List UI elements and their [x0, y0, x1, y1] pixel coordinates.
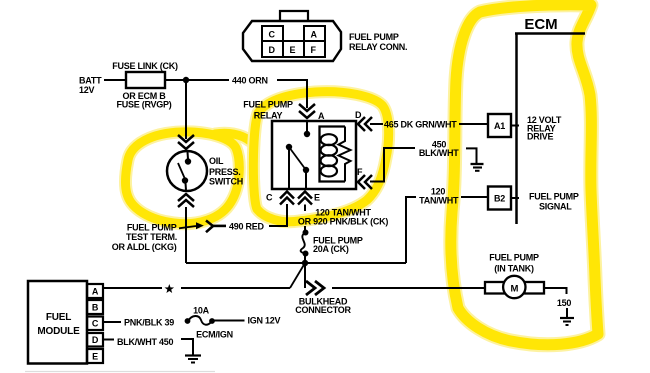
connector arrows at relay D: [358, 117, 372, 131]
wire 465 to A1: [459, 123, 488, 125]
test terminal symbol: [206, 221, 226, 233]
connector arrows above oil switch: [178, 135, 194, 149]
svg-text:A: A: [92, 287, 99, 297]
wire fuse to junction: [165, 79, 229, 81]
wire motor to ground: [544, 288, 567, 294]
svg-text:F: F: [311, 45, 317, 55]
node junction at fuse output: [183, 77, 189, 83]
relay inner box: [320, 127, 346, 182]
svg-text:D: D: [269, 45, 276, 55]
svg-text:PRESS.: PRESS.: [209, 167, 241, 177]
label fuel pump signal: [529, 192, 579, 212]
fuse FUEL PUMP 20A: [301, 230, 309, 257]
svg-text:C: C: [92, 319, 99, 329]
wire 120 TAN/WHT elbow down: [406, 197, 416, 263]
svg-text:F: F: [357, 167, 363, 177]
ECM block lines: [515, 34, 585, 225]
svg-text:490 RED: 490 RED: [229, 222, 265, 232]
connector cell F: [304, 41, 325, 57]
label 120 TAN/WHT: [419, 187, 459, 206]
fuel pump relay connector outline: [243, 21, 341, 61]
arrow to test terminal: [179, 222, 204, 229]
svg-text:RELAY: RELAY: [254, 111, 283, 121]
svg-text:FUEL PUMP: FUEL PUMP: [243, 100, 293, 110]
svg-text:A1: A1: [494, 121, 505, 131]
wire junction down to oil switch: [185, 80, 187, 139]
highlight loop around oil pressure switch: [125, 132, 250, 224]
svg-text:BATT: BATT: [79, 76, 102, 86]
wire fuse to IGN 12V: [213, 320, 245, 322]
svg-text:ECM: ECM: [524, 16, 557, 33]
svg-text:M: M: [510, 284, 518, 295]
ground for BLK/WHT 450: [185, 356, 201, 363]
ground for 450 BLK/WHT: [471, 164, 484, 171]
connector arrows at relay F: [358, 175, 372, 189]
wire C pin to label: [103, 321, 121, 323]
svg-text:BLK/WHT: BLK/WHT: [419, 148, 459, 158]
svg-text:FUEL PUMP: FUEL PUMP: [529, 192, 579, 202]
connector cell D: [262, 41, 283, 57]
ECM pin B2: [488, 187, 519, 210]
wire junction down to bulkhead: [304, 263, 306, 288]
scan artifact bottom line: [25, 371, 215, 373]
wire bottom rail: [186, 262, 406, 264]
svg-text:SIGNAL: SIGNAL: [539, 202, 572, 212]
svg-text:(IN TANK): (IN TANK): [494, 264, 534, 274]
svg-text:TAN/WHT: TAN/WHT: [419, 196, 459, 206]
fuse 10A ECM/IGN: [185, 316, 215, 325]
svg-text:OIL: OIL: [209, 156, 224, 166]
svg-text:C: C: [269, 30, 276, 40]
svg-text:D: D: [92, 335, 99, 345]
svg-text:E: E: [290, 45, 296, 55]
highlight loop around fuel pump relay: [253, 92, 388, 222]
svg-text:B2: B2: [494, 194, 505, 204]
wire 490 RED to relay C: [269, 204, 287, 226]
fuel module pin D: [87, 333, 103, 347]
label fuel pump 20A: [313, 236, 363, 254]
node star: [165, 284, 175, 293]
label fuel module: [37, 312, 80, 337]
svg-text:440 ORN: 440 ORN: [232, 76, 268, 86]
wire A to star: [103, 287, 162, 289]
wire diagonal to star wire: [290, 263, 305, 288]
connector arrows at relay C: [280, 192, 294, 205]
highlight loop around ECM and fuel pump: [451, 5, 598, 345]
label or ECM B fuse: [116, 91, 171, 110]
relay coil L1: [321, 134, 337, 176]
fuel module pin C: [87, 317, 103, 331]
relay resistor R1: [339, 127, 351, 182]
label fuel pump relay: [243, 100, 293, 121]
svg-text:C: C: [266, 193, 273, 203]
relay switch contacts: [286, 121, 310, 189]
svg-text:RELAY CONN.: RELAY CONN.: [349, 42, 407, 52]
svg-text:10A: 10A: [193, 306, 210, 316]
svg-text:465 DK GRN/WHT: 465 DK GRN/WHT: [384, 120, 457, 130]
wire F to 450 label: [370, 148, 415, 182]
ECM pin A1: [488, 114, 519, 137]
wire 120 TAN/WHT to B2: [461, 196, 488, 198]
connector cell A: [304, 26, 325, 41]
svg-text:E: E: [314, 193, 320, 203]
label oil press switch: [209, 156, 243, 187]
wire BATT to fuse: [104, 79, 126, 81]
ground for fuel pump 150: [560, 308, 574, 325]
svg-text:A: A: [318, 111, 325, 121]
bulkhead connector arrows: [306, 281, 324, 295]
svg-text:SWITCH: SWITCH: [209, 177, 243, 187]
fuel module pin E: [87, 349, 103, 363]
svg-text:FUEL PUMP: FUEL PUMP: [127, 223, 177, 233]
svg-text:150: 150: [557, 298, 572, 308]
svg-text:MODULE: MODULE: [37, 326, 80, 337]
svg-text:PNK/BLK 39: PNK/BLK 39: [124, 318, 174, 328]
fuel module pin B: [87, 300, 103, 314]
connector cell C: [262, 26, 283, 41]
svg-text:FUSE LINK (CK): FUSE LINK (CK): [112, 61, 178, 71]
relay K1 box: [272, 121, 356, 189]
svg-text:FUSE (RVGP): FUSE (RVGP): [116, 100, 171, 110]
node main junction: [302, 260, 308, 266]
svg-text:CONNECTOR: CONNECTOR: [295, 305, 351, 315]
wire oil switch down to bottom rail: [185, 207, 187, 263]
label 450 BLK/WHT: [419, 140, 459, 159]
wire star to diagonal: [181, 287, 290, 289]
wire D to 465 label: [370, 123, 383, 125]
label BATT 12V: [79, 76, 102, 96]
label fuel pump in tank: [489, 253, 539, 274]
svg-text:B: B: [92, 303, 99, 313]
connector cell E: [283, 41, 304, 57]
svg-text:ECM/IGN: ECM/IGN: [196, 330, 233, 340]
wire E down to fuse: [304, 205, 306, 212]
svg-text:BLK/WHT 450: BLK/WHT 450: [117, 337, 174, 347]
wire 450 to ground: [466, 148, 477, 163]
svg-text:FUEL PUMP: FUEL PUMP: [489, 253, 539, 263]
label fuel pump relay conn: [349, 32, 407, 52]
svg-text:FUEL: FUEL: [46, 312, 71, 323]
wire 440 ORN to relay A: [277, 80, 307, 108]
connector arrows at relay E: [298, 192, 312, 205]
connector arrows at relay A: [299, 104, 315, 118]
svg-text:OR 920 PNK/BLK (CK): OR 920 PNK/BLK (CK): [298, 217, 389, 227]
label bulkhead connector: [295, 297, 351, 316]
svg-text:20A (CK): 20A (CK): [313, 244, 349, 254]
label 12 volt relay drive: [527, 115, 562, 142]
wire C down to 490 RED elbow: [286, 205, 288, 227]
svg-text:TEST TERM.: TEST TERM.: [126, 232, 177, 242]
svg-text:12V: 12V: [79, 85, 95, 95]
connector arrows below oil switch: [178, 194, 194, 207]
svg-text:IGN 12V: IGN 12V: [248, 316, 281, 326]
svg-text:OR ALDL (CKG): OR ALDL (CKG): [112, 242, 177, 252]
svg-text:A: A: [311, 30, 318, 40]
wire D pin to label: [103, 339, 114, 341]
fuel module pin A: [87, 284, 103, 298]
fuel pump motor M: [485, 276, 544, 298]
fuse link F1: [126, 72, 165, 88]
svg-text:D: D: [355, 110, 362, 120]
svg-text:FUEL PUMP: FUEL PUMP: [349, 32, 399, 42]
fuel pump relay connector tab: [280, 11, 308, 21]
label fuel pump test term: [112, 223, 177, 252]
wire fuse to junction node: [304, 253, 306, 263]
oil pressure switch: [167, 151, 207, 191]
wire bulkhead to fuel pump: [332, 287, 484, 289]
svg-text:DRIVE: DRIVE: [527, 132, 554, 142]
wire 450 to ground elbow: [181, 339, 193, 355]
fuel module box: [28, 281, 87, 364]
svg-text:E: E: [92, 352, 98, 362]
label 120 TAN/WHT or 920: [298, 208, 389, 227]
